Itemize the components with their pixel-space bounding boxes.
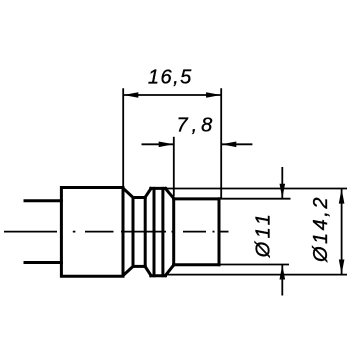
svg-text:Ø11: Ø11 xyxy=(252,211,274,259)
svg-text:16,5: 16,5 xyxy=(148,67,193,89)
svg-text:Ø14,2: Ø14,2 xyxy=(310,195,332,263)
svg-text:7,8: 7,8 xyxy=(176,115,216,137)
